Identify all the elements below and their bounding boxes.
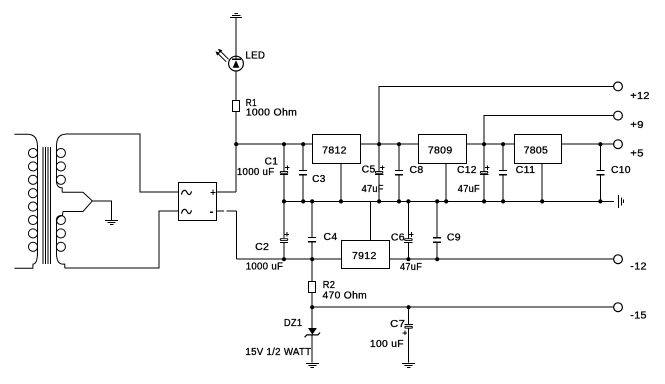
capacitor C4 bbox=[308, 238, 316, 242]
svg-text:C11: C11 bbox=[516, 165, 536, 176]
wire bridge - down to -12 rail bbox=[235, 211, 237, 259]
junction dot C10 top bbox=[598, 142, 602, 146]
wire 7809 ground pin bbox=[445, 163, 447, 201]
capacitor C2 (electrolytic) bbox=[280, 232, 289, 242]
zener diode DZ1 wire top bbox=[311, 307, 313, 328]
ground (below DZ1) bbox=[306, 364, 319, 368]
junction dot C12 top bbox=[482, 142, 486, 146]
capacitor C9 bbox=[433, 238, 441, 242]
ground (center tap) bbox=[105, 221, 118, 225]
junction dot C11 ground bbox=[501, 199, 505, 203]
capacitor C5 wire bbox=[378, 144, 380, 201]
terminal -15 bbox=[614, 303, 623, 312]
svg-text:-12: -12 bbox=[630, 262, 647, 273]
junction dot C12 ground bbox=[482, 199, 486, 203]
zener diode DZ1 wire bottom bbox=[311, 335, 313, 363]
ground (above LED) bbox=[230, 14, 242, 18]
svg-text:C6: C6 bbox=[391, 233, 405, 244]
transformer T1 secondary lower winding bbox=[56, 212, 65, 269]
transformer T1 core bbox=[43, 147, 51, 264]
svg-text:C3: C3 bbox=[312, 174, 326, 185]
junction dot 7805 ground pin bbox=[540, 199, 544, 203]
wire LED to R1 bbox=[235, 71, 237, 100]
svg-text:C9: C9 bbox=[447, 233, 461, 244]
capacitor C10 bbox=[596, 170, 604, 174]
svg-text:+9: +9 bbox=[630, 120, 644, 131]
junction dot C8 top bbox=[397, 142, 401, 146]
junction dot C1/C2 ground bbox=[282, 199, 286, 203]
wire +V rail segment 1 bbox=[236, 143, 312, 145]
svg-text:-15: -15 bbox=[630, 310, 647, 321]
capacitor C11 bbox=[499, 170, 507, 174]
wire +V rail segment 3 bbox=[467, 143, 515, 145]
svg-text:C1: C1 bbox=[265, 156, 279, 167]
junction dot C2 bottom bbox=[282, 257, 286, 261]
wire secondary top to bridge input 1 bbox=[66, 134, 179, 192]
wire center tap arrow bbox=[62, 192, 92, 211]
capacitor C7 wire top bbox=[408, 307, 410, 324]
capacitor C1 (electrolytic) bbox=[280, 165, 290, 174]
wire secondary bottom to bridge input 2 bbox=[65, 211, 178, 268]
junction dot C9 bottom bbox=[435, 257, 439, 261]
svg-text:C7: C7 bbox=[390, 319, 405, 330]
capacitor C7 wire bottom bbox=[408, 329, 410, 363]
svg-text:1000 uF: 1000 uF bbox=[237, 167, 275, 178]
zener diode DZ1 bbox=[305, 328, 321, 337]
capacitor C3 bbox=[299, 170, 307, 174]
capacitor C2 wire bbox=[283, 201, 285, 259]
wire +V rail segment 2 bbox=[361, 143, 419, 145]
svg-text:1000 Ohm: 1000 Ohm bbox=[246, 107, 297, 118]
junction dot C11 top bbox=[501, 142, 505, 146]
wire 7812 ground pin bbox=[340, 163, 342, 201]
wire -12 rail segment 2 bbox=[390, 258, 614, 260]
capacitor C11 wire bbox=[502, 144, 504, 201]
junction dot C6 bottom bbox=[406, 257, 410, 261]
junction dot C9 ground bbox=[435, 199, 439, 203]
svg-text:1000 uF: 1000 uF bbox=[246, 262, 284, 273]
transformer T1 primary winding bbox=[14, 134, 37, 268]
junction dot 7809 ground pin bbox=[444, 199, 448, 203]
terminal +5 bbox=[614, 140, 623, 149]
regulator U3 7805 bbox=[515, 135, 562, 164]
svg-text:100 uF: 100 uF bbox=[370, 339, 404, 350]
junction dot C5 top bbox=[377, 142, 381, 146]
capacitor C8 bbox=[395, 170, 403, 174]
junction dot C4/R2 bbox=[310, 257, 314, 261]
regulator U2 7809 bbox=[419, 135, 467, 164]
svg-text:LED: LED bbox=[245, 51, 265, 62]
wire +V rail segment 4 bbox=[562, 143, 614, 145]
junction dot C7 top bbox=[407, 305, 411, 309]
wire center tap to ground bbox=[92, 201, 111, 220]
capacitor C9 wire bbox=[436, 201, 438, 259]
svg-text:C5: C5 bbox=[362, 164, 376, 175]
svg-text:R2: R2 bbox=[323, 280, 336, 291]
regulator U1 7812 bbox=[313, 135, 361, 164]
capacitor C1 wire bbox=[283, 144, 285, 201]
svg-text:7912: 7912 bbox=[352, 251, 377, 262]
wire ground to LED cathode bbox=[235, 17, 237, 56]
wire +12 tap bbox=[379, 86, 613, 144]
svg-text:C8: C8 bbox=[410, 165, 424, 176]
resistor R2 wire top bbox=[311, 259, 313, 281]
junction dot C6 ground bbox=[406, 199, 410, 203]
capacitor C12 (electrolytic) bbox=[480, 165, 490, 174]
terminal +9 bbox=[614, 111, 623, 120]
svg-text:DZ1: DZ1 bbox=[284, 318, 303, 329]
capacitor C10 wire bbox=[599, 144, 601, 201]
svg-text:C4: C4 bbox=[324, 232, 338, 243]
bridge rectifier BR1 bbox=[179, 183, 217, 221]
wire -15 rail bbox=[312, 306, 613, 308]
svg-text:+12: +12 bbox=[630, 91, 650, 102]
ground (right end of ground rail) bbox=[619, 195, 624, 208]
node A junction dot (+V rail start) bbox=[234, 142, 238, 146]
svg-text:C10: C10 bbox=[611, 165, 631, 176]
wire -12 rail segment 1 bbox=[236, 258, 341, 260]
svg-text:C2: C2 bbox=[255, 242, 269, 253]
terminal +12 bbox=[614, 82, 623, 91]
capacitor C7 (electrolytic) bbox=[403, 324, 413, 335]
junction dot C5 ground bbox=[377, 199, 381, 203]
wire +9 tap bbox=[484, 116, 613, 145]
wire 7912 ground pin bbox=[369, 201, 371, 240]
junction dot C4 ground bbox=[310, 199, 314, 203]
junction dot 7812 ground pin bbox=[339, 199, 343, 203]
capacitor C6 wire bbox=[407, 201, 409, 259]
wire bridge - output (segment with gap) bbox=[217, 210, 237, 212]
ground (below C7) bbox=[402, 364, 415, 368]
resistor R2 wire bottom bbox=[311, 293, 313, 308]
svg-text:7809: 7809 bbox=[428, 146, 453, 157]
svg-text:7805: 7805 bbox=[524, 146, 549, 157]
svg-text:47uF: 47uF bbox=[362, 184, 384, 195]
resistor R2 bbox=[309, 282, 316, 293]
junction dot R2/DZ1 bbox=[310, 305, 314, 309]
svg-text:7812: 7812 bbox=[322, 146, 347, 157]
LED D1 bbox=[229, 56, 244, 71]
svg-text:C12: C12 bbox=[457, 165, 477, 176]
svg-text:15V 1/2 WATT: 15V 1/2 WATT bbox=[245, 347, 311, 358]
capacitor C3 wire bbox=[302, 144, 304, 201]
capacitor C8 wire bbox=[398, 144, 400, 201]
junction dot C3 ground bbox=[301, 199, 305, 203]
wire bridge + output to node A bbox=[217, 191, 237, 193]
regulator U4 7912 bbox=[342, 241, 390, 269]
capacitor C4 wire bbox=[311, 201, 313, 259]
transformer T1 secondary upper winding bbox=[56, 134, 65, 192]
LED light arrows bbox=[216, 49, 229, 62]
svg-text:+5: +5 bbox=[630, 148, 644, 159]
wire R1 to node A and bridge + bbox=[235, 111, 237, 192]
svg-text:47uF: 47uF bbox=[458, 184, 480, 195]
junction dot C3 top bbox=[301, 142, 305, 146]
resistor R1 bbox=[233, 101, 240, 112]
terminal -12 bbox=[614, 255, 623, 264]
capacitor C6 (electrolytic) bbox=[404, 232, 413, 242]
svg-text:47uF: 47uF bbox=[400, 262, 422, 273]
capacitor C5 (electrolytic) bbox=[375, 165, 385, 174]
junction dot C1 top bbox=[282, 142, 286, 146]
wire 7805 ground pin bbox=[541, 163, 543, 201]
wire ground rail bbox=[284, 200, 614, 202]
junction dot C8 ground bbox=[397, 199, 401, 203]
junction dot C10 ground bbox=[598, 199, 602, 203]
svg-text:470 Ohm: 470 Ohm bbox=[323, 291, 368, 302]
capacitor C12 wire bbox=[483, 144, 485, 201]
